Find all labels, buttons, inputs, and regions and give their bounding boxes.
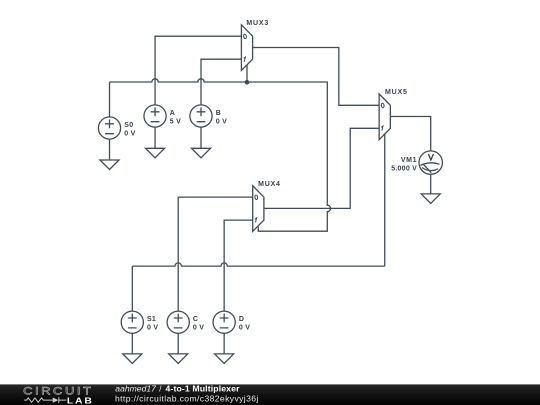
voltage source S1 (121, 311, 143, 333)
wire MUX4 output with hop over select vertical to MUX5 input 1 (264, 128, 379, 208)
svg-text:http://circuitlab.com/c382ekyv: http://circuitlab.com/c382ekyvyj36j (115, 393, 259, 403)
voltmeter VM1 (419, 151, 442, 174)
svg-text:0 V: 0 V (147, 325, 158, 332)
svg-text:0 V: 0 V (193, 325, 204, 332)
svg-text:LAB: LAB (67, 396, 94, 405)
voltage source C (167, 311, 189, 333)
wire D bottom (223, 333, 225, 354)
ground below C (169, 354, 188, 364)
label S1 value (147, 316, 158, 332)
voltage source A (144, 105, 166, 127)
wire MUX5 output to VM1 (390, 117, 430, 151)
wire C top to MUX4 input 0 (178, 197, 253, 311)
label MUX5 (385, 89, 408, 96)
pin label 1 MUX4 (255, 218, 257, 223)
logo CIRCUIT text (23, 384, 93, 397)
label C value (193, 316, 204, 332)
logo resistor zigzag and diode (24, 397, 66, 403)
svg-text:D: D (239, 316, 244, 323)
ground below B (192, 148, 211, 158)
wire A bottom (154, 127, 156, 148)
wire D top to MUX4 input 1 (224, 220, 253, 311)
wire B bottom (200, 127, 202, 148)
footer title line (115, 384, 259, 404)
wire MUX5 select down to S1 run (384, 134, 386, 266)
junction dot MUX3 select (245, 80, 250, 85)
logo LAB text (67, 396, 94, 405)
wire B top to MUX3 input 1 (201, 59, 241, 105)
svg-text:A: A (170, 110, 175, 117)
ground below S1 (123, 354, 142, 364)
svg-text:5 V: 5 V (170, 119, 181, 126)
label MUX4 (258, 181, 281, 188)
wire S0 top (109, 82, 111, 117)
mux MUX4 (253, 186, 264, 232)
label A value (170, 110, 181, 125)
wire S1 bottom (131, 333, 133, 354)
svg-text:0 V: 0 V (216, 119, 227, 126)
label D value (239, 316, 250, 332)
svg-text:VM1: VM1 (401, 157, 417, 164)
label VM1 value (391, 157, 417, 173)
svg-text:S1: S1 (147, 316, 156, 323)
ground below S0 (100, 160, 119, 170)
voltage source D (213, 311, 235, 333)
pin label 1 MUX3 (244, 57, 246, 62)
wire C bottom (177, 333, 179, 354)
svg-text:0 V: 0 V (239, 325, 250, 332)
wire S0 select run with hops over A and B, down to MUX4 select (110, 79, 331, 231)
ground below VM1 (421, 194, 440, 204)
voltage source S0 (98, 117, 120, 139)
svg-text:B: B (216, 110, 221, 117)
wire MUX3 output to MUX5 input 0 (253, 48, 380, 106)
svg-text:5.000 V: 5.000 V (391, 165, 417, 172)
mux MUX5 (379, 94, 390, 140)
wire VM1 bottom (430, 174, 432, 194)
ground below A (146, 148, 165, 158)
pin label 1 MUX5 (381, 126, 383, 131)
label MUX3 (246, 20, 269, 27)
wire S1 select run with hops over C and D to MUX5 select (132, 263, 384, 266)
svg-text:0 V: 0 V (124, 130, 135, 137)
wire A top to MUX3 input 0 (155, 36, 241, 105)
svg-text:MUX5: MUX5 (385, 89, 408, 96)
svg-text:aahmed17 / 4-to-1 Multiplexer: aahmed17 / 4-to-1 Multiplexer (115, 384, 240, 394)
svg-text:MUX4: MUX4 (258, 181, 281, 188)
ground below D (215, 354, 234, 364)
voltage source B (190, 105, 212, 127)
pin label 0 MUX3 (243, 34, 246, 39)
mux MUX3 (241, 25, 252, 71)
svg-text:MUX3: MUX3 (246, 20, 269, 27)
label S0 value (124, 122, 135, 138)
svg-text:S0: S0 (124, 122, 133, 129)
wire S1 top (131, 266, 133, 311)
pin label 0 MUX5 (381, 103, 384, 108)
label V inside VM1 (428, 154, 433, 160)
svg-text:C: C (193, 316, 198, 323)
pin label 0 MUX4 (255, 195, 258, 200)
wire S0 bottom (109, 139, 111, 160)
wire MUX3 select stub (246, 65, 248, 82)
label B value (216, 110, 227, 125)
